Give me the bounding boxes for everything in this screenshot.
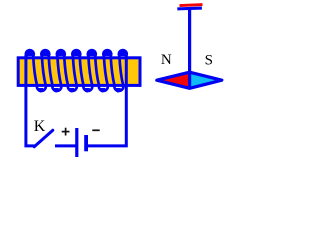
svg-text:K: K — [34, 118, 46, 135]
wire switch to battery positive — [55, 144, 77, 147]
label + — [62, 128, 70, 136]
stand crossbar blue — [177, 6, 202, 10]
compass needle S pole (cyan half) — [190, 72, 222, 88]
compass needle center divider — [188, 72, 191, 89]
compass needle outline — [157, 72, 222, 88]
stand crossbar red top — [179, 3, 202, 7]
coil winding L1 (7 turns) — [26, 50, 127, 91]
switch K blade — [34, 130, 53, 147]
wire right terminal riser (coil to battery) — [88, 56, 127, 146]
battery negative plate — [84, 135, 88, 151]
coil core bar (solenoid core) — [18, 58, 140, 86]
compass needle N pole (red half) — [157, 72, 190, 88]
coil bump crest fills — [26, 50, 127, 56]
wire left terminal (coil down to switch) — [26, 55, 35, 146]
label minus — [92, 129, 99, 131]
coil bottom loop fills — [38, 88, 121, 92]
battery positive plate — [75, 128, 78, 157]
suspension stem wire — [188, 10, 191, 80]
svg-text:S: S — [205, 52, 213, 68]
svg-text:N: N — [161, 52, 172, 68]
